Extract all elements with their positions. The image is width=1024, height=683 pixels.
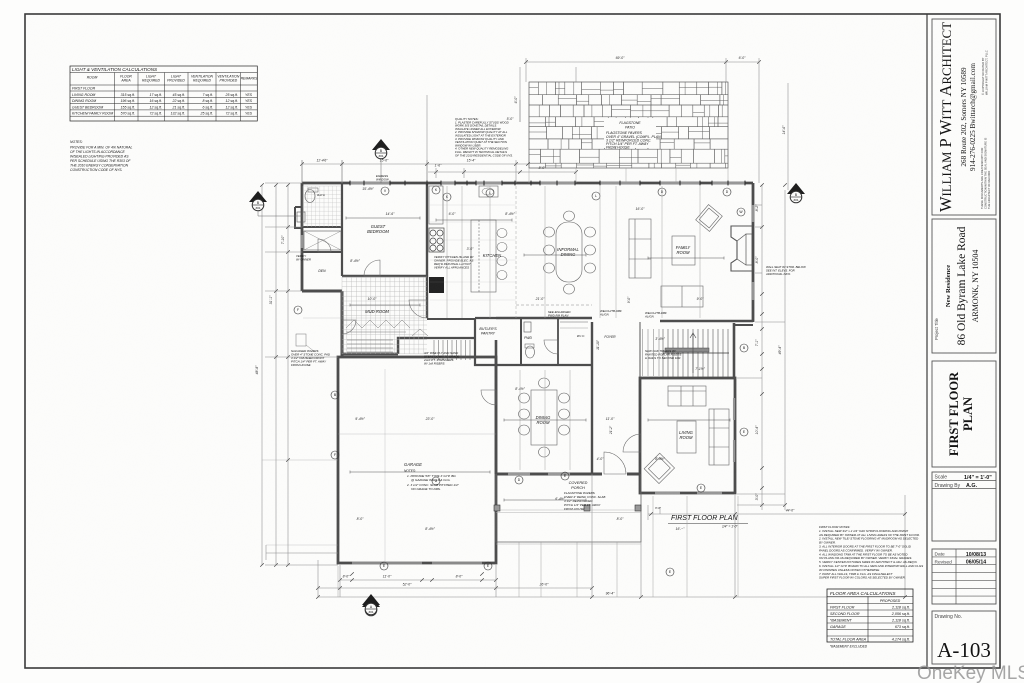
- kitchen fridge: [429, 277, 444, 293]
- table body rows: [72, 87, 253, 116]
- family room furniture: [629, 205, 722, 307]
- kitchen sink top: [479, 186, 498, 197]
- corridor labels: [596, 296, 631, 435]
- section marker top: [372, 139, 390, 159]
- dimension labels: [255, 56, 786, 596]
- window top wall 3: [476, 182, 502, 184]
- garage door opening 2: [432, 562, 482, 564]
- garage side door swing: [481, 390, 496, 405]
- scale row line: [932, 480, 996, 482]
- architect copyright smallprint: [980, 50, 991, 209]
- fireplace family room: [731, 226, 752, 271]
- construction guide lines: [262, 186, 700, 560]
- dimension lines: [260, 58, 907, 599]
- wall garage outline: [338, 357, 496, 563]
- wall mud jog: [398, 338, 427, 354]
- section marker left: [249, 191, 267, 211]
- garage door opening 1: [352, 562, 422, 564]
- title box sheetname: [932, 361, 996, 467]
- porch post 3: [635, 505, 641, 511]
- section marker bottom: [362, 596, 380, 616]
- wall hall to pantry: [427, 337, 475, 339]
- title box drawing number: [932, 611, 996, 664]
- stair rail line: [663, 352, 729, 354]
- bath tile grid: [303, 186, 341, 227]
- mudroom tile grid: [342, 277, 427, 354]
- powder sink: [524, 322, 531, 332]
- wall closet bump top: [295, 206, 302, 208]
- flagstone label: [606, 121, 661, 150]
- table header: [87, 75, 258, 83]
- stair treads main: [663, 329, 728, 377]
- wall closet bump: [295, 207, 302, 228]
- wall mudroom bottom: [342, 353, 398, 356]
- porch bottom guides: [338, 496, 738, 597]
- bath tub lines: [304, 231, 341, 250]
- title box project: [932, 219, 996, 353]
- drawingby row line: [932, 488, 996, 490]
- covered porch label: [569, 481, 588, 490]
- powder door swing: [544, 340, 558, 354]
- window top wall 5: [600, 182, 640, 184]
- window top wall 2: [441, 182, 455, 184]
- door window tags: [294, 186, 748, 576]
- window top wall 1: [350, 182, 390, 184]
- wall powder bottom: [496, 364, 592, 366]
- wall bath divider2: [302, 251, 342, 253]
- wall exterior right family: [752, 183, 755, 322]
- bedroom door swing: [364, 260, 380, 276]
- wall bedroom bottom: [342, 275, 427, 277]
- wall family bottom: [660, 320, 753, 323]
- garage label: [404, 462, 460, 491]
- bed wall note: [296, 254, 311, 261]
- north arrow: [362, 594, 380, 615]
- wall left mid vertical: [341, 291, 344, 357]
- title block divider: [926, 14, 928, 668]
- welch note: [599, 309, 622, 317]
- wall powder divider2: [557, 318, 559, 365]
- mudroom bench hooks: [346, 320, 428, 336]
- bath sink: [297, 212, 305, 222]
- window top wall 6: [660, 182, 700, 184]
- wall dining left: [495, 340, 498, 474]
- garage guides: [338, 168, 728, 563]
- salvaged pavers note: [291, 349, 330, 367]
- powder note: [548, 310, 571, 318]
- wall dining right: [591, 322, 593, 474]
- kitchen note: [434, 255, 475, 270]
- window living bottom 2: [697, 492, 722, 494]
- first floor plan title: [668, 515, 748, 529]
- flagstone patio hatch: [529, 82, 728, 168]
- flagstone label box: [604, 118, 656, 148]
- wall exterior left: [301, 183, 304, 291]
- wall left wing bottom: [302, 290, 342, 293]
- title box architect: [932, 19, 996, 215]
- wall foyer bottom right: [627, 473, 641, 476]
- wall powder divider: [520, 318, 522, 365]
- porch roof line 2: [496, 512, 641, 514]
- wall mudroom right: [426, 183, 428, 318]
- wall exterior top: [302, 182, 753, 185]
- interior dim arrows: [346, 217, 730, 502]
- porch post 2: [584, 505, 590, 511]
- kitchen range cooktop: [429, 228, 444, 252]
- window right wall 2: [752, 282, 754, 300]
- wall foyer bottom left: [592, 473, 602, 476]
- table notes: [70, 140, 132, 172]
- window right wall 1: [752, 205, 754, 222]
- porch bottom edge 2: [496, 543, 641, 545]
- window dining bottom 2: [548, 473, 570, 475]
- top wall window mullions: [350, 181, 745, 186]
- marker leader top: [380, 158, 382, 183]
- wic closet lines: [560, 321, 588, 323]
- window dining bottom 1: [508, 473, 530, 475]
- window living right 1: [733, 398, 735, 420]
- wall bath divider: [302, 226, 342, 228]
- wall powder top: [496, 317, 592, 319]
- wall dining bottom: [496, 473, 592, 476]
- wall pantry top: [475, 317, 496, 319]
- table light and ventilation grid: [70, 66, 257, 121]
- kitchen counter top run: [429, 186, 443, 224]
- stair up arrow: [690, 333, 696, 373]
- window living bottom 1: [655, 492, 680, 494]
- wall butler pantry: [475, 318, 496, 365]
- title box scale: [932, 472, 996, 541]
- window left wall: [301, 235, 303, 248]
- garage door lines: [352, 562, 422, 564]
- porch post 1: [494, 505, 500, 511]
- align note: [644, 311, 667, 319]
- covered porch notes: [564, 491, 605, 511]
- first floor notes: [818, 525, 923, 580]
- stair treads basement: [434, 340, 470, 360]
- wall stairwell right: [733, 323, 736, 378]
- informal dining table and chairs: [544, 211, 596, 294]
- wall bedroom left: [341, 183, 343, 276]
- bath door swing: [318, 239, 331, 252]
- bath note: [0, 0, 1, 1]
- window top wall 7: [712, 182, 745, 184]
- stair lower run: [643, 329, 660, 376]
- date revision table: [932, 549, 996, 604]
- marker leader left: [258, 211, 302, 216]
- front door swing: [604, 452, 626, 474]
- living room furniture: [644, 386, 729, 484]
- formal dining table and chairs: [519, 378, 570, 457]
- window top wall 4: [540, 182, 575, 184]
- floor area calculations table: [827, 589, 913, 649]
- stair note: [645, 349, 681, 360]
- dim above bedroom wing: [300, 160, 530, 183]
- kitchen island and stools: [471, 220, 507, 292]
- wall stair landing top: [734, 324, 753, 326]
- window seat note: [765, 265, 806, 276]
- stair landing bar: [665, 348, 709, 352]
- mudroom steps: [347, 340, 393, 352]
- quality notes top: [454, 117, 513, 157]
- wall living room outline: [640, 378, 735, 493]
- stair hall divider: [639, 322, 641, 377]
- powder toilet: [526, 346, 535, 358]
- dim below living: [648, 505, 907, 520]
- bath toilet: [305, 190, 315, 203]
- garage hall note: [423, 351, 459, 366]
- window living right 2: [733, 440, 735, 462]
- den door swing: [342, 320, 356, 334]
- clg above dashed: [516, 304, 592, 306]
- paver pad: [296, 334, 306, 346]
- porch edge: [496, 474, 641, 542]
- porch-foyer door swing: [623, 434, 641, 452]
- section marker right: [787, 183, 805, 203]
- scan noise overlay: [0, 0, 1, 1]
- bottom dim extra ticks: [350, 572, 484, 576]
- mudroom door swing: [409, 300, 427, 318]
- room labels: [317, 193, 693, 440]
